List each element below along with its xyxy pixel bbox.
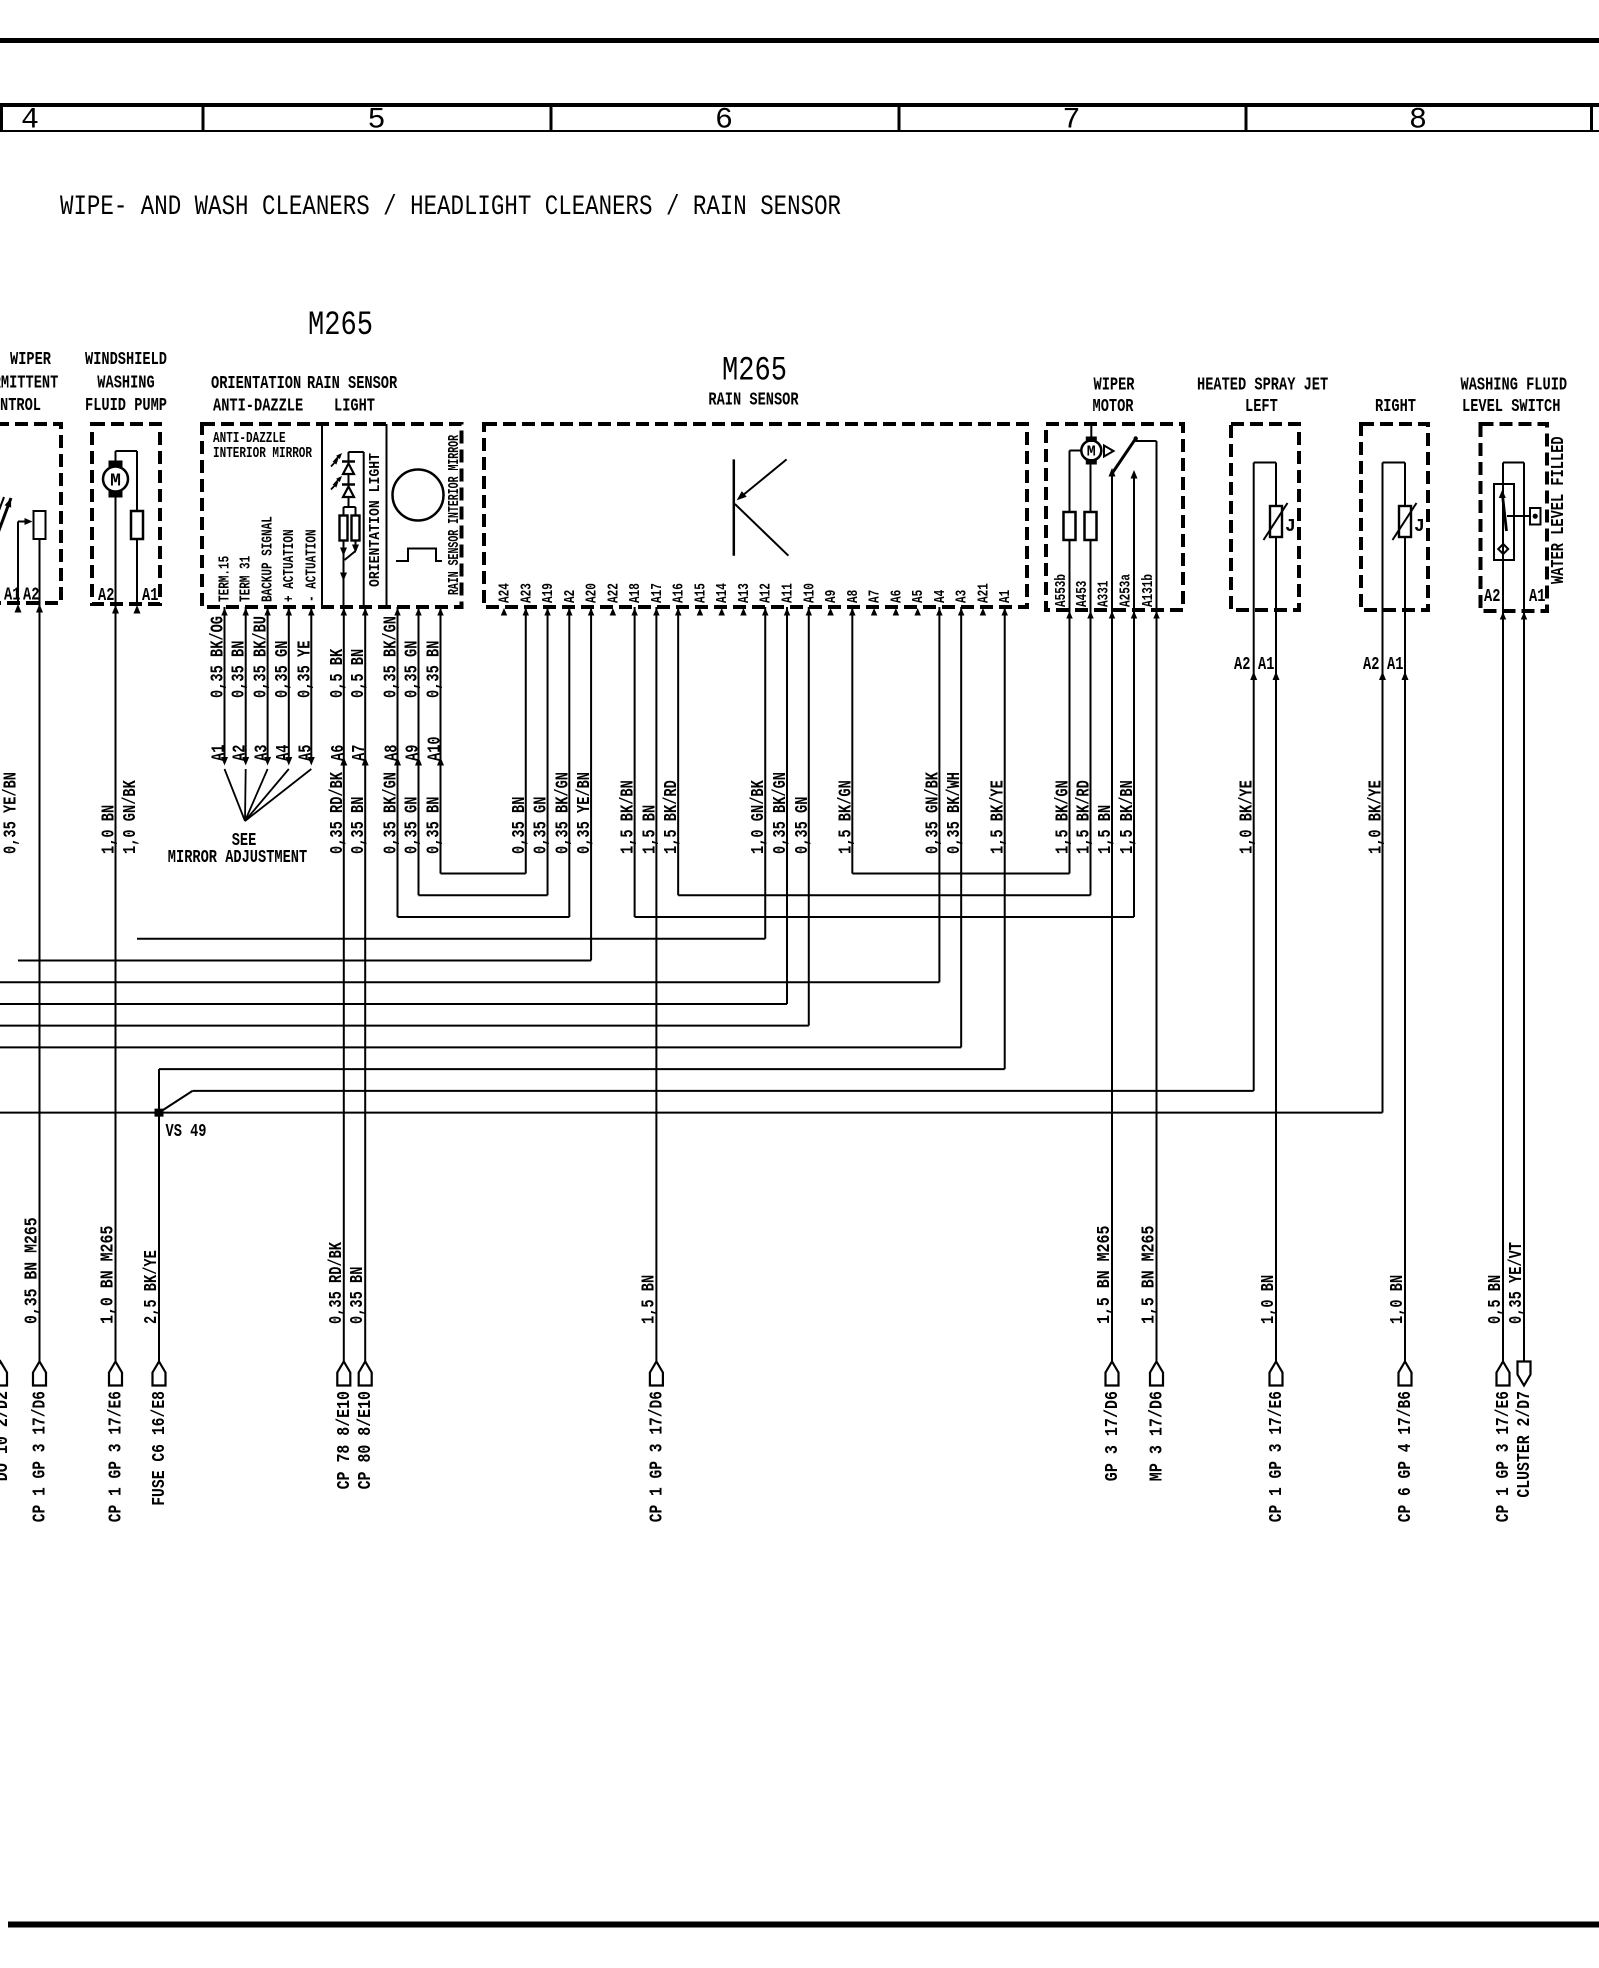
svg-text:0,35 YE/BN: 0,35 YE/BN xyxy=(575,772,595,854)
svg-text:A453: A453 xyxy=(1074,581,1091,607)
svg-text:LEFT: LEFT xyxy=(1245,397,1278,417)
connector flag CP 1 GP 3 17/E6 at x=115.5 xyxy=(109,1362,122,1386)
connector flag GP 3 17/D6 at x=1112.0 xyxy=(1106,1362,1119,1386)
svg-text:A12: A12 xyxy=(758,583,775,603)
svg-text:GP 3 17/D6: GP 3 17/D6 xyxy=(1103,1391,1123,1481)
svg-text:2,5 BK/YE: 2,5 BK/YE xyxy=(142,1250,162,1324)
rain sensor pin wire A1 xyxy=(1004,607,1006,1069)
svg-text:INTERIOR MIRROR: INTERIOR MIRROR xyxy=(213,445,312,462)
bus wire mirror A9 to rain A19 xyxy=(419,894,548,896)
svg-text:A16: A16 xyxy=(671,583,688,603)
bus wire to rain A4 off page left xyxy=(0,981,939,983)
svg-text:MIRROR ADJUSTMENT: MIRROR ADJUSTMENT xyxy=(168,848,308,868)
wiper motor supply wire from box top xyxy=(1090,424,1092,437)
svg-text:VS 49: VS 49 xyxy=(166,1122,207,1142)
svg-text:A10: A10 xyxy=(426,736,446,761)
component M265 rain sensor dashed box xyxy=(484,424,1027,607)
bus wire to rain A3 off page left xyxy=(0,1046,961,1048)
wire motor A131b down to connector xyxy=(1156,610,1158,1362)
svg-text:0,35 BN: 0,35 BN xyxy=(349,797,369,854)
svg-text:WATER LEVEL FILLED: WATER LEVEL FILLED xyxy=(1549,436,1569,584)
connector flag FUSE C6 16/E8 at x=159 xyxy=(153,1362,166,1386)
svg-text:CP 1 GP 3 17/D6: CP 1 GP 3 17/D6 xyxy=(647,1391,667,1522)
svg-text:CLUSTER 2/D7: CLUSTER 2/D7 xyxy=(1515,1391,1535,1498)
svg-text:A23: A23 xyxy=(518,583,535,603)
svg-text:A17: A17 xyxy=(649,583,666,603)
svg-text:ORIENTATION LIGHT: ORIENTATION LIGHT xyxy=(367,453,384,587)
svg-text:CP 78 8/E10: CP 78 8/E10 xyxy=(335,1391,355,1489)
wire S1 pin A1 riser xyxy=(17,522,19,604)
bus wire mirror A10 to rain A23 xyxy=(441,873,526,875)
svg-text:ORIENTATION: ORIENTATION xyxy=(211,374,301,394)
pin arrows below rain sensor box xyxy=(501,608,508,616)
svg-text:1,5 BK/GN: 1,5 BK/GN xyxy=(836,780,856,854)
connector flag MP 3 17/D6 at x=1156.5 xyxy=(1150,1362,1163,1386)
potentiometer R in wiper control xyxy=(34,511,46,539)
connector flag CP 1 GP 3 17/E6 at x=1503 xyxy=(1497,1362,1510,1386)
wiper motor switch common to pin A131b xyxy=(1136,440,1157,442)
svg-text:0,35 GN: 0,35 GN xyxy=(793,797,813,854)
svg-text:A553b: A553b xyxy=(1053,574,1070,607)
svg-text:M: M xyxy=(1087,444,1096,461)
rain sensor pin wire A11 xyxy=(786,607,788,1004)
svg-text:A2: A2 xyxy=(562,590,579,603)
wiper motor left branch to resistor xyxy=(1070,450,1082,452)
svg-text:1,5 BN M265: 1,5 BN M265 xyxy=(1095,1226,1115,1324)
svg-text:0,35 YE/VT: 0,35 YE/VT xyxy=(1507,1242,1527,1324)
svg-text:A1: A1 xyxy=(142,586,159,606)
svg-text:1,5 BK/GN: 1,5 BK/GN xyxy=(1054,780,1074,854)
svg-text:5: 5 xyxy=(367,104,385,138)
svg-text:CP 1 GP 3 17/E6: CP 1 GP 3 17/E6 xyxy=(107,1391,127,1522)
heater resistor J of left jet xyxy=(1270,506,1282,537)
mirror pin wire A10 xyxy=(440,607,442,874)
svg-text:0,5 BK: 0,5 BK xyxy=(328,649,348,698)
rain sensor pin wire A8 xyxy=(851,607,853,874)
bus wire rain A1 to splice riser xyxy=(159,1068,1005,1070)
wire motor A553b down to bus xyxy=(1069,610,1071,874)
svg-text:ANTI-DAZZLE: ANTI-DAZZLE xyxy=(213,397,303,417)
svg-text:INTERMITTENT: INTERMITTENT xyxy=(0,374,58,394)
svg-text:M265: M265 xyxy=(308,307,373,345)
pump internal wire resistor to pin A1 xyxy=(136,539,138,604)
svg-text:- ACTUATION: - ACTUATION xyxy=(303,529,320,602)
svg-text:0,5 BN: 0,5 BN xyxy=(349,649,369,698)
connector flag CP 6 GP 4 17/B6 at x=1405 xyxy=(1399,1362,1412,1386)
svg-text:4: 4 xyxy=(21,104,39,138)
component M1 wiper motor dashed box xyxy=(1046,424,1183,610)
svg-text:0,35 BK/OG: 0,35 BK/OG xyxy=(209,616,229,698)
svg-text:1,0 BK/YE: 1,0 BK/YE xyxy=(1367,780,1387,854)
svg-text:A8: A8 xyxy=(845,590,862,603)
svg-text:CP 80 8/E10: CP 80 8/E10 xyxy=(356,1391,376,1489)
splice node VS 49 xyxy=(155,1109,164,1117)
svg-text:A1: A1 xyxy=(1387,655,1404,675)
connector flag CP 80 8/E10 at x=365.2 xyxy=(359,1362,372,1386)
svg-text:A24: A24 xyxy=(497,583,514,603)
svg-text:1,5 BN: 1,5 BN xyxy=(1096,805,1116,854)
svg-text:A5: A5 xyxy=(296,745,316,761)
svg-text:A2: A2 xyxy=(1234,655,1250,675)
svg-text:0,35 BK/GN: 0,35 BK/GN xyxy=(382,772,402,854)
wiper motor park switch blade xyxy=(1112,439,1136,474)
svg-text:CP 1 GP 3 17/D6: CP 1 GP 3 17/D6 xyxy=(31,1391,51,1522)
svg-text:0,35 BK/WH: 0,35 BK/WH xyxy=(945,772,965,854)
svg-text:A21: A21 xyxy=(975,583,992,603)
svg-text:A1: A1 xyxy=(4,586,21,606)
svg-text:A9: A9 xyxy=(404,745,424,761)
svg-text:0,35 BK/GN: 0,35 BK/GN xyxy=(382,616,402,698)
svg-text:A19: A19 xyxy=(540,583,557,603)
rain sensor pin wire A3 xyxy=(960,607,962,1047)
svg-text:CP 6 GP 4 17/B6: CP 6 GP 4 17/B6 xyxy=(1396,1391,1416,1522)
ruler band with zone numbers 4-8 xyxy=(0,103,1599,107)
pin arrows below S1 xyxy=(15,604,22,613)
svg-text:1,5 BK/RD: 1,5 BK/RD xyxy=(662,780,682,854)
wire control A2 down to connector xyxy=(39,603,41,1362)
svg-text:A8: A8 xyxy=(383,745,403,761)
svg-text:A10: A10 xyxy=(801,583,818,603)
wiper switch partial symbol at left edge xyxy=(0,498,11,533)
rain sensor pin wire A10 xyxy=(808,607,810,1026)
pin arrows below level switch xyxy=(1500,612,1507,620)
wire motor A253a down to bus xyxy=(1133,610,1135,917)
svg-text:M265: M265 xyxy=(722,353,787,391)
svg-text:0,35 GN/BK: 0,35 GN/BK xyxy=(923,772,943,854)
svg-text:0,35 GN: 0,35 GN xyxy=(273,641,293,698)
wire S1 pot to pin A2 xyxy=(39,539,41,603)
svg-text:RAIN SENSOR: RAIN SENSOR xyxy=(307,374,397,394)
svg-text:1,5 BK/RD: 1,5 BK/RD xyxy=(1075,780,1095,854)
svg-text:FUSE C6 16/E8: FUSE C6 16/E8 xyxy=(150,1391,170,1506)
resistor on wiper motor pin A453 xyxy=(1090,465,1092,513)
svg-text:A14: A14 xyxy=(714,583,731,603)
svg-text:M: M xyxy=(110,472,121,492)
mirror pin wire A7 xyxy=(364,607,366,1362)
wire LED chain to resistor pair split xyxy=(348,497,350,507)
page frame: bottom thick border line xyxy=(8,1922,1599,1928)
svg-text:A1: A1 xyxy=(1258,655,1275,675)
mirror pin wire A8 xyxy=(397,607,399,917)
svg-text:RAIN SENSOR: RAIN SENSOR xyxy=(708,391,798,411)
wire orientation light supply pin A7 xyxy=(349,451,364,453)
bus wire to rain A11 off page left xyxy=(0,1003,787,1005)
bus wire rain A16 to motor A453 xyxy=(678,894,1090,896)
svg-text:0,35 RD/BK: 0,35 RD/BK xyxy=(327,1242,347,1324)
svg-text:0,35 BN: 0,35 BN xyxy=(348,1267,368,1324)
wiper motor pin A331 wire with arrow xyxy=(1111,475,1113,610)
motor M symbol of pump xyxy=(103,467,128,492)
rain sensor pin wire A19 xyxy=(547,607,549,895)
svg-text:0,35 BN: 0,35 BN xyxy=(425,641,445,698)
svg-text:TERM.15: TERM.15 xyxy=(217,556,234,602)
svg-text:CONTROL: CONTROL xyxy=(0,396,41,416)
rain sensor pin wire A20 xyxy=(590,607,592,960)
svg-text:1,0 BN: 1,0 BN xyxy=(1388,1275,1408,1324)
component S1 wiper intermittent control dashed box (cut at left edge) xyxy=(0,424,61,603)
svg-text:CP 1 GP 3 17/E6: CP 1 GP 3 17/E6 xyxy=(1494,1391,1514,1522)
wire level switch A2 to connector xyxy=(1502,611,1504,1362)
mirror internal partition line 1 xyxy=(321,424,323,607)
pin arrows below mirror box xyxy=(221,608,228,616)
bus wire pump A1 to rain A12 xyxy=(137,938,765,940)
LED D1 of orientation light with emission arrows xyxy=(348,452,350,462)
svg-text:WIPE- AND WASH CLEANERS / HEAD: WIPE- AND WASH CLEANERS / HEADLIGHT CLEA… xyxy=(60,192,841,223)
connector flag CP 1 GP 3 17/E6 at x=1276 xyxy=(1270,1362,1283,1386)
svg-text:MOTOR: MOTOR xyxy=(1093,397,1134,417)
wire pump A2 down to connector xyxy=(115,604,117,1362)
svg-text:1,0 BN M265: 1,0 BN M265 xyxy=(99,1226,119,1324)
svg-text:0,35 YE: 0,35 YE xyxy=(295,640,315,698)
svg-text:BACKUP SIGNAL: BACKUP SIGNAL xyxy=(260,516,277,602)
svg-text:0,35 BK/GN: 0,35 BK/GN xyxy=(771,772,791,854)
svg-text:A2: A2 xyxy=(98,586,114,606)
svg-text:0,35 GN: 0,35 GN xyxy=(403,797,423,854)
wiper motor drive linkage triangle xyxy=(1104,446,1114,457)
svg-text:A15: A15 xyxy=(692,583,709,603)
svg-text:A2: A2 xyxy=(1484,587,1500,607)
fan lines to mirror adjustment note xyxy=(225,769,246,821)
pump internal wire motor to pin A2 xyxy=(115,498,117,605)
svg-text:1,0 GN/BK: 1,0 GN/BK xyxy=(121,780,141,854)
motor M symbol of wiper motor xyxy=(1081,441,1101,461)
pin arrows below pump xyxy=(112,605,119,614)
svg-text:1,0 BN: 1,0 BN xyxy=(1259,1275,1279,1324)
bus wire left jet A2 with diagonal to splice xyxy=(193,1090,1254,1092)
rain sensor pin wire A18 xyxy=(634,607,636,917)
svg-text:DO 10 2/D2: DO 10 2/D2 xyxy=(0,1391,13,1481)
connector flag CP 78 8/E10 at x=343.8 xyxy=(337,1362,350,1386)
svg-text:0,35 BN: 0,35 BN xyxy=(230,641,250,698)
svg-text:WIPER: WIPER xyxy=(10,350,51,370)
svg-text:A9: A9 xyxy=(823,590,840,603)
connector flag CP 1 GP 3 17/D6 at x=656.4 xyxy=(650,1362,663,1386)
bus wire right jet A2 through splice VS 49 xyxy=(0,1112,1383,1114)
svg-text:MP 3 17/D6: MP 3 17/D6 xyxy=(1148,1391,1168,1481)
level switch float blade with arrow xyxy=(1503,498,1507,531)
svg-text:LIGHT: LIGHT xyxy=(334,397,375,417)
pin arrows below wiper motor box xyxy=(1066,611,1073,619)
svg-text:CP 1 GP 3 17/E6: CP 1 GP 3 17/E6 xyxy=(1267,1391,1287,1522)
optical mirror symbol inside rain sensor xyxy=(733,459,736,555)
svg-text:RIGHT: RIGHT xyxy=(1375,397,1416,417)
svg-text:A4: A4 xyxy=(932,590,949,603)
svg-text:WASHING: WASHING xyxy=(97,374,154,394)
svg-text:A13: A13 xyxy=(736,583,753,603)
svg-text:0,35 RD/BK: 0,35 RD/BK xyxy=(328,772,348,854)
rain sensor eye circle in mirror box xyxy=(393,470,444,521)
svg-text:A1: A1 xyxy=(210,744,230,761)
svg-text:A3: A3 xyxy=(954,590,971,603)
component M3 washing fluid pump dashed box xyxy=(92,424,160,604)
svg-text:7: 7 xyxy=(1062,104,1080,138)
rain sensor pin wire A12 xyxy=(764,607,766,939)
svg-text:J: J xyxy=(1414,517,1425,537)
bus wire rain A8 to motor A553b xyxy=(852,873,1069,875)
svg-text:A4: A4 xyxy=(274,744,294,761)
svg-text:0,5 BN: 0,5 BN xyxy=(1486,1275,1506,1324)
wire resistor outputs joining to pin A6 xyxy=(343,541,345,608)
svg-text:A7: A7 xyxy=(867,590,884,603)
svg-text:A131b: A131b xyxy=(1140,574,1157,607)
svg-text:TERM 31: TERM 31 xyxy=(238,556,255,602)
component heated spray jet right dashed box xyxy=(1361,424,1428,610)
svg-text:0,35 BK/BU: 0,35 BK/BU xyxy=(252,616,272,698)
rain sensor pin wire A16 xyxy=(677,607,679,895)
svg-text:J: J xyxy=(1285,517,1296,537)
svg-text:0,35 BN M265: 0,35 BN M265 xyxy=(23,1217,43,1324)
svg-text:RAIN SENSOR INTERIOR MIRROR: RAIN SENSOR INTERIOR MIRROR xyxy=(446,435,463,595)
right jet internal loop wire xyxy=(1382,463,1384,611)
svg-text:WIPER: WIPER xyxy=(1094,376,1135,396)
svg-text:0,35 GN: 0,35 GN xyxy=(532,797,552,854)
bus wire control A1 to rain A20 xyxy=(18,959,591,961)
wire motor A331 down to connector xyxy=(1111,610,1113,1362)
resistor R2 in mirror xyxy=(352,516,360,541)
svg-text:A7: A7 xyxy=(350,745,370,761)
svg-text:A2: A2 xyxy=(231,745,251,761)
svg-text:1,0 GN/BK: 1,0 GN/BK xyxy=(749,780,769,854)
connector flag CLUSTER 2/D7 at x=1524 xyxy=(1518,1362,1531,1386)
svg-text:0,35 GN: 0,35 GN xyxy=(403,641,423,698)
svg-text:1,5 BK/BN: 1,5 BK/BN xyxy=(1118,780,1138,854)
rain sensor pin wire A23 xyxy=(525,607,527,874)
wire motor A453 down to bus xyxy=(1090,610,1092,895)
svg-text:A2: A2 xyxy=(1363,655,1379,675)
component heated spray jet left dashed box xyxy=(1231,424,1299,610)
wiper control arrow to potentiometer xyxy=(18,521,28,523)
mirror pin wire A6 xyxy=(343,607,345,1362)
svg-text:A11: A11 xyxy=(780,583,797,603)
svg-text:A6: A6 xyxy=(888,590,905,603)
svg-text:A5: A5 xyxy=(910,590,927,603)
bus wire mirror A8 to rain A2 xyxy=(398,916,570,918)
svg-text:0,35 YE/BN: 0,35 YE/BN xyxy=(2,772,22,854)
right jet wires down with pin arrows xyxy=(1382,610,1384,1113)
svg-text:A253a: A253a xyxy=(1118,574,1135,607)
svg-text:A2: A2 xyxy=(23,586,39,606)
connector flag CP 1 GP 3 17/D6 at x=39.5 xyxy=(33,1362,46,1386)
svg-text:A20: A20 xyxy=(584,583,601,603)
LED D2 of orientation light with emission arrows xyxy=(348,474,350,485)
svg-text:1,5 BN: 1,5 BN xyxy=(639,1275,659,1324)
svg-text:1,5 BN: 1,5 BN xyxy=(640,805,660,854)
svg-text:WINDSHIELD: WINDSHIELD xyxy=(85,350,167,370)
heater resistor J of right jet xyxy=(1399,506,1411,537)
svg-text:1,5 BN M265: 1,5 BN M265 xyxy=(1140,1226,1160,1324)
svg-text:WASHING FLUID: WASHING FLUID xyxy=(1461,376,1568,396)
svg-text:A331: A331 xyxy=(1096,581,1113,607)
svg-text:1,5 BK/BN: 1,5 BK/BN xyxy=(619,780,639,854)
svg-text:1,0 BK/YE: 1,0 BK/YE xyxy=(1238,780,1258,854)
component level switch dashed box xyxy=(1481,424,1548,611)
svg-text:6: 6 xyxy=(715,104,733,138)
svg-text:0,35 BK/GN: 0,35 BK/GN xyxy=(553,772,573,854)
svg-text:A1: A1 xyxy=(997,590,1014,603)
wire splice VS 49 down to fuse connector xyxy=(158,1113,160,1362)
svg-text:+ ACTUATION: + ACTUATION xyxy=(281,529,298,602)
wiper motor pin A253a wire with arrow xyxy=(1133,477,1135,610)
level switch housing rectangle xyxy=(1494,484,1514,560)
svg-text:HEATED SPRAY JET: HEATED SPRAY JET xyxy=(1197,376,1328,396)
mirror pin wire A9 xyxy=(418,607,420,895)
wire level switch A1 to cluster connector xyxy=(1523,611,1525,1362)
svg-text:0,35 BN: 0,35 BN xyxy=(425,797,445,854)
left jet wires down with pin arrows xyxy=(1253,610,1255,1091)
svg-text:1,5 BK/YE: 1,5 BK/YE xyxy=(989,780,1009,854)
rain sensor pin wire A2 xyxy=(568,607,570,917)
pulse waveform symbol xyxy=(396,549,442,562)
bus wire rain A18 to motor A253a xyxy=(635,916,1134,918)
mirror pin stubs A1-A5 with end arrows xyxy=(224,607,226,757)
svg-text:A18: A18 xyxy=(627,583,644,603)
page frame: top thick border line xyxy=(0,38,1599,43)
mirror internal partition line 2 xyxy=(386,424,388,607)
resistor on wiper motor pin A553b xyxy=(1064,512,1076,540)
svg-text:FLUID PUMP: FLUID PUMP xyxy=(85,396,167,416)
svg-text:0,35 BN: 0,35 BN xyxy=(510,797,530,854)
svg-text:A22: A22 xyxy=(605,583,622,603)
component anti-dazzle interior mirror dashed box xyxy=(202,424,462,607)
svg-text:A1: A1 xyxy=(1529,587,1546,607)
svg-text:8: 8 xyxy=(1409,104,1427,138)
level switch internal loop wire xyxy=(1502,463,1504,612)
pump internal wire motor top loop xyxy=(115,451,117,461)
bus wire to rain A10 off page left xyxy=(0,1025,809,1027)
svg-text:A3: A3 xyxy=(253,745,273,761)
left jet internal loop wire xyxy=(1253,463,1255,611)
level switch blade lower contact diamond xyxy=(1498,544,1508,554)
svg-text:LEVEL SWITCH: LEVEL SWITCH xyxy=(1462,397,1560,417)
resistor in pump on A1 branch xyxy=(131,511,143,539)
cut connector flag at left page edge xyxy=(0,1362,7,1386)
svg-text:A6: A6 xyxy=(329,745,349,761)
level switch fixed contact box xyxy=(1507,515,1530,517)
rain sensor pin wire A17 to connector xyxy=(655,607,657,1362)
resistor R1 in mirror xyxy=(340,516,348,541)
rain sensor pin wire A4 xyxy=(938,607,940,982)
